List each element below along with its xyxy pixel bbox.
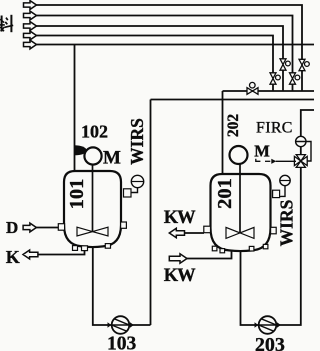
svg-text:FIRC: FIRC: [256, 120, 293, 137]
svg-text:201: 201: [214, 178, 236, 209]
svg-text:203: 203: [255, 334, 285, 351]
svg-text:D: D: [6, 218, 18, 237]
svg-text:K: K: [6, 247, 20, 267]
svg-text:101: 101: [66, 179, 88, 210]
svg-text:KW: KW: [164, 208, 196, 228]
svg-text:WIRS: WIRS: [127, 118, 147, 165]
svg-text:WIRS: WIRS: [277, 200, 297, 247]
svg-text:KW: KW: [164, 266, 196, 286]
svg-text:M: M: [103, 148, 121, 169]
svg-text:202: 202: [225, 114, 242, 138]
svg-text:103: 103: [107, 334, 137, 351]
svg-text:102: 102: [81, 122, 108, 142]
svg-text:M: M: [254, 141, 270, 160]
